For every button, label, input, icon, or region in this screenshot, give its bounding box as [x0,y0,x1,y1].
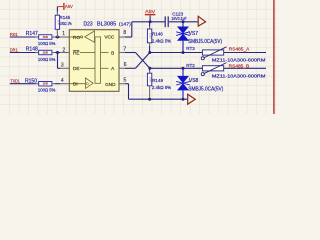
resistor R148 [26,47,56,62]
svg-text:100R: 100R [42,83,48,86]
svg-text:(147): (147) [119,21,131,27]
svg-text:MZ11-10A300-600RM: MZ11-10A300-600RM [212,73,266,78]
svg-text:2: 2 [63,47,66,53]
sheet border [273,0,275,114]
resistor R146 [147,22,171,53]
svg-text:100R: 100R [42,52,48,55]
svg-text:RT2: RT2 [186,63,195,68]
svg-text:3: 3 [61,63,64,69]
svg-text:VS7: VS7 [189,31,199,37]
svg-text:RS485_A: RS485_A [229,46,250,51]
power port A5V (left) [57,3,73,10]
pin 8 [119,36,125,38]
wire [10,52,36,54]
svg-text:R149: R149 [152,78,163,83]
svg-text:SMBJ5.0CA(5V): SMBJ5.0CA(5V) [188,39,222,45]
svg-text:RS485_B: RS485_B [229,64,250,69]
net label RS485_A [229,46,250,51]
ground (bottom arrow) [188,94,196,104]
net label R01 [10,32,19,37]
svg-text:R146: R146 [152,32,163,37]
svg-text:RT3: RT3 [186,46,195,51]
svg-text:8: 8 [123,30,126,36]
net label RS485_B [229,64,250,69]
svg-text:R145: R145 [60,15,71,20]
svg-text:MZ11-10A300-600RM: MZ11-10A300-600RM [212,58,266,63]
TVS diode VS7 [176,22,222,53]
pin 5 [119,83,125,85]
inner block [80,37,109,83]
svg-text:A5V: A5V [65,4,74,10]
svg-text:VCC: VCC [104,35,115,40]
svg-text:5: 5 [124,78,127,84]
receiver buffer [69,31,94,42]
resistor R150 [25,78,55,92]
TVS diode VS8 [176,68,223,99]
pin 6 [119,67,125,69]
pin names [73,35,116,87]
svg-text:TXD1: TXD1 [11,78,21,83]
designator D23 BL3085 (147) [84,21,132,27]
wire to power [56,7,58,12]
svg-text:100Ω 5%: 100Ω 5% [38,57,56,62]
pin 2 [60,47,69,53]
svg-text:1: 1 [62,31,65,37]
svg-text:100Ω 5%: 100Ω 5% [38,87,56,92]
svg-text:A5V: A5V [145,9,156,15]
power port A5V (right) [145,9,156,22]
capacitor C123 [165,11,187,27]
wire pin8 to rail [125,20,165,37]
PTC RT3 [186,46,265,63]
svg-text:4: 4 [61,78,64,84]
crossover wires [125,51,151,70]
svg-text:16V0.1uF: 16V0.1uF [171,16,187,21]
driver buffer [69,78,93,89]
resistor R147 [26,31,56,46]
svg-text:B: B [111,50,114,55]
svg-text:BL3085: BL3085 [97,21,116,27]
pin 3 [60,63,69,69]
wire [55,83,60,85]
svg-text:VS8: VS8 [189,78,199,84]
svg-text:DE: DE [73,66,80,71]
wire C123 to ground [169,20,198,23]
svg-text:SMBJ5.0CA(5V): SMBJ5.0CA(5V) [188,87,223,93]
wire + junction node [55,36,60,39]
net label TXD1 [11,78,21,83]
resistor R149 [147,68,171,99]
wire B row [150,67,203,70]
pin 7 [119,52,125,54]
wire [10,83,36,85]
svg-text:RO: RO [73,35,80,40]
svg-text:DI: DI [73,82,78,87]
transceiver D23 BL3085 body [69,30,119,92]
svg-text:DR1: DR1 [10,47,18,52]
wire [10,36,36,38]
wire A row [150,51,203,54]
svg-text:100Ω 5%: 100Ω 5% [38,41,56,46]
resistor R145 [55,12,72,38]
net label DR1 [10,47,18,52]
svg-text:R01: R01 [10,32,19,37]
svg-text:2.4kΩ 5%: 2.4kΩ 5% [152,39,171,44]
svg-text:RE: RE [73,50,80,55]
svg-text:100R: 100R [149,77,152,83]
svg-text:7: 7 [123,46,126,52]
PTC RT2 [186,63,265,79]
svg-text:2.4kΩ 5%: 2.4kΩ 5% [152,85,171,90]
svg-text:GND: GND [105,82,116,87]
svg-text:100R: 100R [42,36,48,39]
ground (top arrow) [198,16,205,26]
svg-text:100Ω 1%: 100Ω 1% [59,21,72,26]
svg-text:D23: D23 [84,21,93,27]
right pin numbers [123,30,126,84]
svg-text:R148: R148 [26,47,38,53]
wire branch to pins 2 and 3 [55,51,60,68]
pin 1 [60,31,69,37]
svg-text:R150: R150 [25,78,37,84]
wire stub RS485_B [224,67,266,69]
svg-text:6: 6 [124,62,127,68]
svg-text:R147: R147 [26,31,38,37]
wire stub RS485_A [224,52,266,54]
pin 4 [60,78,69,84]
wire gnd rail [125,84,188,101]
